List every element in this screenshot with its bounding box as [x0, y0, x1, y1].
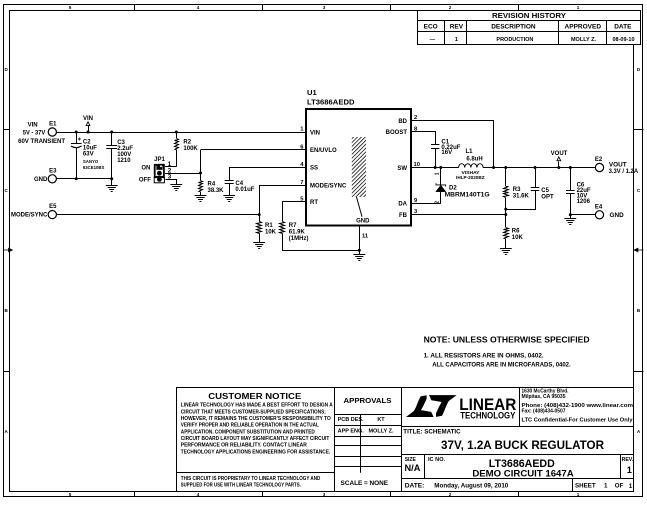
svg-text:E4: E4 — [595, 204, 603, 210]
svg-text:0.01uF: 0.01uF — [235, 187, 254, 193]
svg-text:VIN: VIN — [310, 130, 320, 136]
ground under R4 — [195, 195, 207, 197]
date row — [401, 478, 633, 491]
svg-text:REV.: REV. — [622, 457, 634, 463]
svg-text:R7: R7 — [289, 223, 297, 229]
svg-text:DA: DA — [398, 202, 407, 208]
wire EN/UVLO vertical — [200, 150, 202, 173]
ground under C3 — [106, 185, 118, 187]
diode D2 MBRM140T1G — [436, 168, 446, 204]
svg-text:N/A: N/A — [405, 463, 421, 473]
junction EN node — [199, 172, 202, 175]
wire GND stub — [359, 250, 361, 254]
svg-text:DATE: DATE — [614, 24, 632, 31]
refdes U1 — [307, 88, 355, 107]
wire EN/UVLO to U1 pin 6 — [201, 149, 307, 151]
value label R7 — [289, 223, 309, 242]
value label C4 — [235, 181, 254, 193]
svg-text:FB: FB — [399, 213, 408, 219]
junction VOUT-R3 — [504, 166, 507, 169]
svg-text:Fax: (408)434-0507: Fax: (408)434-0507 — [522, 408, 566, 414]
svg-text:TECHNOLOGY APPLICATIONS ENGINE: TECHNOLOGY APPLICATIONS ENGINEERING FOR … — [181, 449, 331, 455]
wire BOOST U1 pin 8 to C1 — [412, 132, 436, 145]
jumper JP1 — [139, 157, 166, 184]
svg-text:VERIFY PROPER AND RELIABLE OPE: VERIFY PROPER AND RELIABLE OPERATION IN … — [181, 423, 320, 429]
junction VIN-C2 — [75, 131, 78, 134]
svg-text:OPT: OPT — [541, 195, 554, 201]
value label R2 — [183, 139, 198, 151]
svg-text:KT: KT — [377, 417, 385, 423]
resistor R7 61.9K — [280, 222, 360, 251]
wire FB U1 pin 3 to divider — [411, 214, 506, 216]
svg-text:CUSTOMER NOTICE: CUSTOMER NOTICE — [208, 392, 302, 401]
svg-text:6.8uH: 6.8uH — [466, 157, 482, 163]
wire BD U1 pin 2 to SW node — [412, 121, 494, 168]
svg-text:NOTE: UNLESS OTHERWISE SPECIFI: NOTE: UNLESS OTHERWISE SPECIFIED — [424, 335, 590, 345]
svg-text:D2: D2 — [449, 185, 457, 191]
svg-text:SW: SW — [397, 166, 407, 172]
junction SW-D2 — [439, 166, 442, 169]
svg-text:4: 4 — [197, 5, 200, 10]
svg-text:3: 3 — [323, 5, 326, 10]
value label R6 — [512, 228, 524, 240]
terminal E3 GND — [34, 168, 57, 183]
svg-text:GND: GND — [610, 212, 625, 219]
svg-text:31.6K: 31.6K — [513, 194, 530, 200]
junction GND-C3 — [110, 177, 113, 180]
svg-text:OFF: OFF — [139, 178, 151, 184]
resistor R2 100K — [175, 132, 179, 167]
wire DA U1 pin 9 to D2 anode — [411, 203, 441, 205]
ground under C6 — [564, 218, 576, 220]
svg-text:R3: R3 — [513, 187, 521, 193]
terminal E1 VIN input — [18, 122, 65, 146]
svg-text:DESCRIPTION: DESCRIPTION — [491, 24, 536, 31]
svg-text:5: 5 — [69, 5, 72, 10]
svg-text:JP1: JP1 — [154, 157, 165, 163]
svg-text:MBRM140T1G: MBRM140T1G — [445, 193, 490, 199]
svg-text:MOLLY Z.: MOLLY Z. — [571, 37, 597, 43]
svg-text:4: 4 — [197, 492, 200, 497]
junction GND-C2 — [75, 177, 78, 180]
svg-text:RT: RT — [310, 200, 318, 206]
svg-text:CIRCUIT THAT MEETS CUSTOMER-SU: CIRCUIT THAT MEETS CUSTOMER-SUPPLIED SPE… — [181, 409, 326, 415]
wire U1 pin 11 GND — [359, 226, 361, 251]
svg-text:5V - 37V: 5V - 37V — [23, 131, 46, 137]
svg-text:SUPPLIED FOR USE WITH LINEAR T: SUPPLIED FOR USE WITH LINEAR TECHNOLOGY … — [181, 482, 301, 488]
svg-text:10K: 10K — [512, 235, 524, 241]
title row — [401, 427, 633, 453]
value label L1 — [456, 149, 485, 180]
net VOUT label arrow — [551, 151, 568, 168]
svg-text:APPROVALS: APPROVALS — [344, 396, 392, 405]
svg-text:MODE/SYNC: MODE/SYNC — [310, 184, 347, 190]
svg-text:1: 1 — [577, 5, 580, 10]
wire VOUT rail L1 to E2 — [483, 167, 595, 169]
svg-text:PERFORMANCE OR RELIABILITY.: PERFORMANCE OR RELIABILITY. CONTACT LINE… — [181, 443, 307, 449]
svg-text:1: 1 — [455, 37, 458, 43]
svg-text:SCALE = NONE: SCALE = NONE — [341, 480, 389, 487]
net VIN label arrow — [83, 116, 93, 132]
svg-text:11: 11 — [362, 233, 369, 239]
svg-text:E2: E2 — [595, 157, 603, 163]
svg-text:E3: E3 — [49, 168, 57, 174]
svg-text:2.2uF: 2.2uF — [117, 146, 133, 152]
capacitor C2 10uF polarized — [71, 132, 82, 179]
value label C5 — [541, 188, 554, 200]
svg-text:CIRCUIT BOARD LAYOUT MAY SIGNI: CIRCUIT BOARD LAYOUT MAY SIGNIFICANTLY A… — [181, 436, 330, 442]
value label R1 — [265, 223, 277, 235]
svg-text:EN/UVLO: EN/UVLO — [310, 148, 337, 154]
capacitor C1 0.22uF — [431, 145, 439, 168]
junction R3-C5 — [504, 208, 507, 211]
svg-text:16V: 16V — [441, 150, 452, 156]
svg-text:60V TRANSIENT: 60V TRANSIENT — [18, 139, 65, 145]
approvals table — [335, 396, 402, 487]
svg-text:L1: L1 — [465, 149, 473, 155]
junction C6-E4 — [569, 213, 572, 216]
junction VIN-R2 — [175, 131, 178, 134]
svg-text:C2: C2 — [83, 139, 91, 145]
svg-text:R4: R4 — [208, 182, 216, 188]
svg-text:MOLLY Z.: MOLLY Z. — [368, 428, 394, 434]
svg-text:100V: 100V — [117, 152, 131, 158]
op IC U1 LT3686AEDD body — [306, 109, 411, 226]
ground under R1 — [253, 242, 265, 244]
svg-text:Milpitas, CA 95035: Milpitas, CA 95035 — [522, 394, 566, 400]
value label C6 — [577, 182, 591, 205]
wire U1 pin 5 RT to R7 — [283, 202, 307, 222]
svg-text:SANYO: SANYO — [83, 159, 99, 164]
resistor R4 38.3K — [199, 173, 203, 196]
svg-text:APP ENG.: APP ENG. — [338, 428, 365, 434]
note text — [424, 335, 590, 369]
resistor R3 31.6K — [504, 168, 509, 215]
svg-text:DATE:: DATE: — [405, 483, 425, 490]
junction VOUT-arrow — [557, 166, 560, 169]
svg-text:IHLP-2020BZ: IHLP-2020BZ — [456, 175, 485, 180]
wire SW U1 pin 10 to L1 — [411, 167, 459, 169]
ground under C4 — [223, 195, 235, 197]
svg-text:C3: C3 — [117, 140, 125, 146]
customer notice — [181, 392, 333, 488]
svg-text:SHEET: SHEET — [575, 483, 596, 490]
svg-text:ECO: ECO — [424, 24, 438, 31]
svg-text:(1MHz): (1MHz) — [289, 236, 309, 242]
svg-text:LTC Confidential-For Customer: LTC Confidential-For Customer Use Only — [522, 417, 634, 423]
value label R4 — [208, 182, 225, 194]
size and part number row — [401, 454, 634, 479]
value label D2 — [445, 185, 490, 198]
svg-text:SS: SS — [310, 166, 318, 172]
svg-text:37V, 1.2A BUCK REGULATOR: 37V, 1.2A BUCK REGULATOR — [441, 438, 604, 452]
capacitor C6 22uF — [566, 168, 575, 219]
wire VIN rail E1 to U1 pin 1 — [56, 132, 306, 134]
svg-text:BOOST: BOOST — [386, 130, 408, 136]
value label R3 — [513, 187, 530, 199]
junction MODE/SYNC-R1 — [258, 213, 261, 216]
junction VOUT-BD — [492, 166, 495, 169]
junction GND net — [358, 249, 361, 252]
svg-text:BD: BD — [398, 119, 407, 125]
capacitor C5 OPT — [506, 168, 540, 210]
company address — [520, 387, 634, 426]
svg-text:VOUT: VOUT — [551, 151, 568, 157]
svg-text:08-09-10: 08-09-10 — [612, 37, 634, 43]
svg-text:TECHNOLOGY: TECHNOLOGY — [460, 411, 515, 421]
svg-text:10K: 10K — [265, 229, 277, 235]
junction SW-C1 — [434, 166, 437, 169]
svg-text:APPROVED: APPROVED — [565, 24, 602, 31]
terminal E5 MODE/SYNC — [11, 204, 57, 219]
terminal E4 GND — [570, 204, 624, 219]
svg-text:R6: R6 — [512, 228, 520, 234]
wire JP1 pin3 to ground — [166, 180, 177, 185]
value label C3 — [117, 140, 133, 164]
wire JP1 pin1 to R2 — [165, 166, 176, 168]
junction VIN-arrow — [87, 131, 90, 134]
svg-text:5: 5 — [69, 492, 72, 497]
svg-text:R1: R1 — [265, 223, 273, 229]
svg-text:2: 2 — [449, 5, 452, 10]
junction FB-R6 — [504, 213, 507, 216]
title block — [176, 387, 634, 492]
svg-text:1: 1 — [627, 465, 632, 475]
svg-text:OF: OF — [615, 483, 624, 490]
ground under JP1 pin3 — [170, 184, 182, 186]
ground under U1 pin 11 — [353, 254, 365, 256]
svg-text:U1: U1 — [307, 88, 317, 97]
svg-text:PCB DES.: PCB DES. — [338, 417, 364, 423]
terminal E2 VOUT output — [595, 157, 639, 175]
svg-text:3: 3 — [323, 492, 326, 497]
svg-text:C5: C5 — [541, 188, 549, 194]
ground under R6 — [500, 248, 512, 250]
junction VOUT-C5 — [534, 166, 537, 169]
svg-text:1210: 1210 — [117, 158, 131, 164]
svg-text:E5: E5 — [49, 204, 57, 210]
Linear Technology logo — [406, 395, 516, 421]
svg-text:1206: 1206 — [577, 199, 591, 205]
svg-text:DEMO CIRCUIT 1647A: DEMO CIRCUIT 1647A — [472, 468, 573, 479]
svg-text:REVISION HISTORY: REVISION HISTORY — [492, 11, 566, 20]
svg-text:ON: ON — [141, 165, 150, 171]
svg-text:C4: C4 — [235, 181, 243, 187]
svg-text:1: 1 — [604, 483, 608, 490]
resistor R6 10K — [504, 215, 509, 249]
svg-text:THIS CIRCUIT IS PROPRIETARY TO: THIS CIRCUIT IS PROPRIETARY TO LINEAR TE… — [181, 476, 321, 482]
svg-text:VIN: VIN — [28, 123, 38, 129]
svg-text:E1: E1 — [49, 122, 57, 128]
svg-text:TITLE: SCHEMATIC: TITLE: SCHEMATIC — [403, 429, 461, 436]
svg-text:ALL CAPACITORS ARE IN MICROFAR: ALL CAPACITORS ARE IN MICROFARADS, 0402. — [432, 361, 571, 368]
svg-text:IC NO.: IC NO. — [428, 457, 446, 463]
value label C1 — [441, 139, 460, 156]
svg-text:63CE10BS: 63CE10BS — [83, 165, 105, 170]
svg-text:61.9K: 61.9K — [289, 229, 306, 235]
svg-text:LT3686AEDD: LT3686AEDD — [307, 98, 355, 107]
svg-text:3.3V / 1.2A: 3.3V / 1.2A — [609, 168, 639, 175]
junction VOUT-C6 — [569, 166, 572, 169]
wire JP1 pin2 to EN node — [165, 173, 200, 175]
svg-text:MODE/SYNC: MODE/SYNC — [11, 213, 48, 219]
svg-text:GND: GND — [356, 218, 370, 224]
svg-text:1: 1 — [577, 492, 580, 497]
svg-text:GND: GND — [34, 177, 48, 183]
revision history table — [418, 11, 641, 45]
svg-text:100K: 100K — [183, 146, 198, 152]
wire SS U1 pin 4 to C4 — [230, 168, 307, 181]
svg-text:1: 1 — [629, 483, 633, 490]
svg-text:HOWEVER, IT REMAINS THE CUSTOM: HOWEVER, IT REMAINS THE CUSTOMER'S RESPO… — [181, 416, 331, 422]
svg-text:PRODUCTION: PRODUCTION — [496, 37, 533, 43]
svg-text:LINEAR TECHNOLOGY HAS MADE A B: LINEAR TECHNOLOGY HAS MADE A BEST EFFORT… — [181, 403, 333, 409]
svg-text:APPLICATION. COMPONENT SUBSTI: APPLICATION. COMPONENT SUBSTITUTION AND … — [181, 429, 315, 435]
capacitor C3 2.2uF — [106, 132, 117, 185]
wire E5 MODE/SYNC rail — [56, 214, 259, 216]
svg-text:VISHAY: VISHAY — [462, 170, 480, 175]
svg-text:2: 2 — [449, 492, 452, 497]
svg-text:63V: 63V — [83, 152, 94, 158]
resistor R1 10K — [257, 215, 262, 243]
wire E3 to C3 — [56, 178, 111, 180]
capacitor C4 0.01uF — [225, 181, 234, 196]
svg-text:1. ALL RESISTORS ARE IN OHMS,: 1. ALL RESISTORS ARE IN OHMS, 0402. — [424, 352, 544, 359]
svg-text:REV: REV — [450, 24, 464, 31]
svg-text:Monday, August 09, 2010: Monday, August 09, 2010 — [434, 483, 508, 490]
svg-text:R2: R2 — [183, 139, 191, 145]
inductor L1 6.8uH — [459, 164, 483, 168]
svg-text:—: — — [430, 37, 436, 43]
value label C2 — [83, 139, 105, 169]
junction VIN-C3 — [110, 131, 113, 134]
svg-text:1: 1 — [434, 172, 440, 175]
svg-text:38.3K: 38.3K — [208, 188, 225, 194]
wire U1 pin 7 to MODE/SYNC rail — [260, 186, 307, 215]
svg-text:7: 7 — [300, 180, 303, 186]
